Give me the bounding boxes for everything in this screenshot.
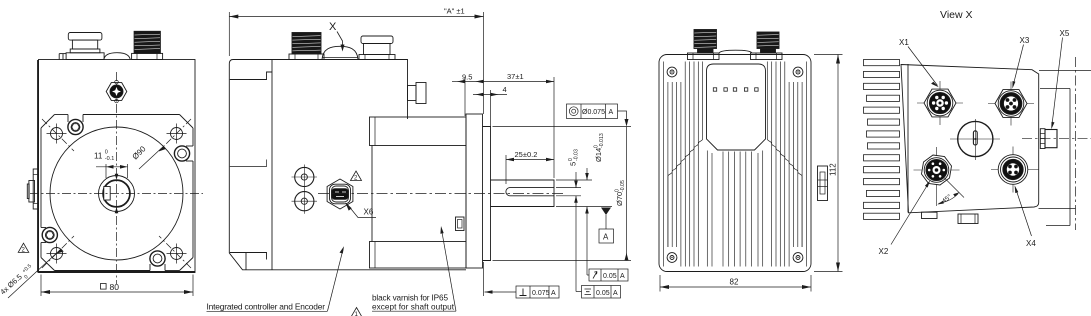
LED windows (713, 88, 758, 91)
svg-text:9.5: 9.5 (462, 73, 472, 82)
dim A extension right (483, 12, 485, 114)
svg-text:X4: X4 (1026, 239, 1036, 248)
heatsink mid ledge (230, 160, 267, 167)
svg-text:Integrated controller and Enco: Integrated controller and Encoder (207, 301, 326, 311)
mounting hole BL (51, 248, 63, 260)
flag note triangle at X6 (351, 171, 362, 181)
concentricity frame (567, 104, 618, 119)
flange left edge (40, 128, 42, 228)
motor front band bottom (370, 242, 467, 269)
dim square80 text (101, 284, 107, 290)
dia90 leader (139, 147, 163, 169)
leader black varnish (442, 230, 457, 312)
diagonal centerline BL (42, 236, 74, 268)
screw boss top-left (68, 119, 83, 134)
vertical centerline (116, 72, 118, 284)
X2 connector (914, 147, 960, 193)
grounding clip on motor (456, 217, 465, 231)
rear body outline (659, 55, 811, 272)
rear screw BR (793, 253, 803, 263)
rear connector right threaded (757, 32, 779, 49)
front body bottom edge thick (39, 271, 196, 273)
keyway notch (104, 187, 110, 201)
rear screw BL (667, 253, 677, 263)
X5 connector block (1040, 129, 1057, 149)
X5 centerline horizontal (1022, 138, 1091, 140)
leader integrated controller (328, 250, 344, 312)
dim 4 line (473, 94, 507, 96)
flange plate side (466, 114, 483, 268)
shaft bore circle thick (103, 180, 130, 207)
motor mid section sides (371, 146, 373, 242)
svg-text:X2: X2 (879, 247, 889, 256)
4x dia6.5 leader (8, 249, 61, 298)
rear screw TR (793, 67, 803, 77)
screw boss bottom-right (150, 251, 165, 266)
X3 connector (988, 82, 1034, 126)
45 degree annotation (945, 178, 965, 198)
X1 connector (917, 81, 963, 125)
jog button lower (295, 192, 314, 211)
pilot circle (50, 127, 183, 260)
svg-text:A: A (603, 233, 609, 242)
perpendicularity frame (516, 286, 559, 298)
dim 9.5 extension (464, 77, 466, 116)
dim 112 (814, 54, 843, 56)
heatsink comb fins (864, 60, 900, 220)
central vent plug (950, 119, 1000, 160)
VIEW X GROUP (864, 9, 1091, 256)
rear connector left threaded (694, 30, 717, 49)
flange square top edge (55, 114, 69, 116)
screw boss bottom-left (42, 227, 57, 242)
svg-text:-0.1: -0.1 (105, 156, 114, 162)
flange square bottom edge (55, 270, 151, 272)
dia70 dim line (626, 127, 628, 261)
heatsink fins (664, 62, 807, 267)
pilot boss side (483, 127, 491, 261)
svg-text:11: 11 (94, 152, 103, 161)
rotated dim text dia14 (594, 133, 606, 162)
top threaded connector (292, 33, 321, 55)
svg-text:except for shaft output: except for shaft output (372, 303, 455, 312)
main centerline (318, 193, 566, 195)
shaft side (491, 180, 555, 207)
svg-text:X3: X3 (1020, 36, 1030, 45)
connector face plate (901, 65, 1039, 213)
front body left edge thick (37, 60, 39, 273)
rear rail clip (818, 166, 828, 201)
svg-text:A: A (613, 290, 618, 297)
dim 9.5 37 lines (452, 81, 465, 83)
svg-text:112: 112 (829, 163, 838, 176)
top connector M12 capped (left) (68, 33, 102, 41)
X4 connector (991, 147, 1039, 193)
mounting hole BR (171, 248, 183, 260)
shaft bottom extension (556, 206, 612, 208)
svg-text:View X: View X (940, 9, 973, 21)
horizontal centerline (30, 193, 203, 195)
svg-text:37±1: 37±1 (507, 72, 524, 81)
SIDE VIEW GROUP (207, 21, 567, 316)
rear screw TL (667, 67, 677, 77)
flange chamfer top-right (180, 115, 194, 129)
svg-text:0.05: 0.05 (603, 273, 617, 280)
dim 4 extension (490, 90, 492, 127)
svg-text:"A" ±1: "A" ±1 (444, 7, 465, 16)
dome vent on top (322, 46, 358, 59)
symmetry frame (582, 286, 621, 299)
heatsink bottom ledge (230, 253, 267, 260)
dim dia14 arrows (586, 168, 588, 180)
diagonal centerline BR (159, 236, 191, 268)
svg-text:82: 82 (730, 278, 739, 287)
X6 label leader (345, 202, 352, 210)
dim 11 line and arrows (96, 166, 128, 168)
dim square80 line (41, 291, 193, 293)
top capped connector (361, 36, 393, 44)
keyway slot side (506, 188, 554, 196)
dim 25 extension (505, 155, 507, 184)
dim 5 arrows (575, 172, 577, 188)
rear dome vent (719, 50, 752, 53)
rotated dim text dia70 (615, 180, 627, 206)
diagonal centerline TR (159, 119, 191, 151)
small arrows at shaft top/bottom (115, 174, 119, 180)
REAR VIEW GROUP (659, 30, 828, 272)
rear panel (707, 64, 766, 150)
svg-text:X5: X5 (1060, 29, 1070, 38)
flag note triangle 4x dia (18, 243, 29, 252)
side connector block on controller right edge (408, 86, 417, 101)
flange chamfer top-left (41, 115, 55, 129)
svg-text:A: A (620, 273, 625, 280)
controller housing outline (229, 60, 466, 270)
shaft outer circle (99, 176, 135, 212)
shaft top extension (556, 179, 592, 181)
svg-text:4: 4 (503, 85, 507, 94)
svg-text:-0.05: -0.05 (620, 180, 626, 192)
svg-text:0.075: 0.075 (532, 290, 550, 297)
svg-text:5: 5 (569, 162, 578, 166)
dim 25 line (506, 159, 554, 161)
jog button upper (295, 167, 314, 186)
datum A flag (601, 208, 611, 216)
svg-text:Ø70: Ø70 (615, 192, 624, 206)
svg-text:X1: X1 (899, 38, 909, 47)
dim A line (229, 16, 483, 18)
left side connector X6 protrusion (33, 169, 38, 209)
motor front band top (370, 117, 467, 146)
dim square80 extension lines (40, 275, 42, 297)
svg-text:80: 80 (110, 282, 120, 292)
svg-text:-0.013: -0.013 (599, 133, 605, 148)
mounting hole TL (51, 128, 63, 140)
projection centerline vertical (1075, 57, 1077, 230)
svg-text:Ø14: Ø14 (594, 148, 603, 162)
svg-text:A: A (609, 109, 614, 116)
projection lines right (1039, 70, 1091, 72)
perpendicularity leader (485, 291, 517, 293)
svg-text:0: 0 (105, 150, 108, 156)
front body outline (39, 60, 196, 273)
flag note triangle bottom (351, 308, 362, 316)
flange chamfer bottom-left (41, 258, 55, 271)
rear view dims (660, 55, 843, 292)
plate feet (922, 212, 938, 218)
slot extensions (556, 187, 581, 189)
FRONT VIEW GROUP (27, 31, 203, 284)
flange right edge (192, 128, 194, 146)
svg-text:X: X (329, 21, 337, 33)
housing bottom-left step (245, 253, 247, 270)
heatsink front boundary line (271, 60, 273, 270)
screw boss top-right (174, 146, 189, 161)
dome bump between connectors (104, 53, 130, 60)
side view dims (229, 7, 631, 299)
svg-text:A: A (551, 290, 556, 297)
svg-text:black varnish for IP65: black varnish for IP65 (372, 294, 448, 303)
front view dims (0, 144, 193, 298)
runout frame (589, 269, 628, 281)
svg-text:25±0.2: 25±0.2 (515, 150, 538, 159)
X6 hex connector (327, 179, 353, 209)
dim A extension left (228, 12, 230, 56)
svg-text:0.05: 0.05 (596, 290, 610, 297)
rotated dim text 5 (568, 149, 580, 166)
mounting hole TR (171, 128, 183, 140)
diagonal centerline TL (42, 119, 74, 151)
pilot extension lines (493, 126, 632, 128)
plate inner edge (907, 64, 909, 213)
concentricity leader to pilot (618, 111, 627, 119)
flange chamfer bottom-right (180, 258, 194, 271)
hex vent plug (106, 83, 127, 101)
top connector threaded (right) (134, 31, 160, 53)
heatsink top ledge (230, 72, 272, 80)
dim 82 (659, 275, 661, 292)
svg-text:-0.03: -0.03 (574, 149, 580, 161)
svg-text:Ø0.075: Ø0.075 (582, 109, 605, 116)
